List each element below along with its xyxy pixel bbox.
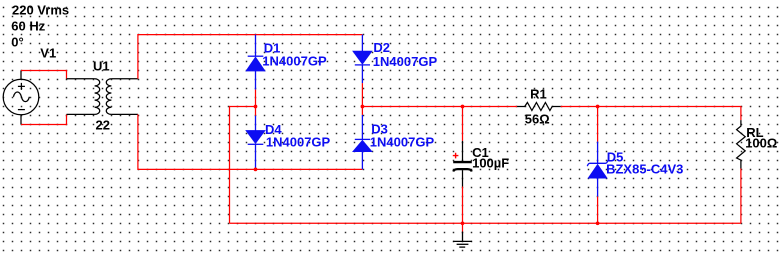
diode D1 bbox=[247, 35, 265, 90]
wire node B rail to D5 top bbox=[597, 107, 599, 142]
junction D4 bottom bbox=[254, 168, 258, 172]
ground symbol bbox=[453, 232, 472, 248]
ground rail bbox=[230, 222, 741, 224]
V1 plus sign bbox=[18, 83, 25, 90]
wire V1 top to U1 primary bbox=[21, 71, 67, 79]
svg-text:V1: V1 bbox=[40, 46, 56, 61]
diode D2 bbox=[353, 35, 371, 84]
V1 top pin bbox=[20, 71, 22, 80]
wire C1 bottom to ground rail bbox=[462, 187, 464, 224]
svg-text:60 Hz: 60 Hz bbox=[11, 18, 45, 33]
transformer U1 primary coil bbox=[67, 79, 100, 115]
ground stub wire bbox=[462, 223, 464, 231]
wire D2 cathode to node B bbox=[361, 83, 363, 106]
capacitor C1 bbox=[453, 141, 472, 187]
junction ground bbox=[461, 221, 465, 225]
wire RL bottom to ground rail bbox=[740, 169, 742, 224]
wire D5 anode to ground rail bbox=[597, 197, 599, 224]
diode D4 bbox=[247, 116, 265, 170]
svg-text:100Ω: 100Ω bbox=[745, 135, 777, 150]
wire V1 bottom to U1 primary bbox=[21, 114, 67, 124]
junction node B (D2/D3) bbox=[361, 105, 365, 109]
wire R1 right to RL top bbox=[561, 107, 741, 121]
C1 polarity plus bbox=[453, 153, 459, 159]
svg-text:U1: U1 bbox=[93, 59, 110, 74]
AC source V1 circle bbox=[3, 71, 39, 125]
V1 bottom pin bbox=[20, 115, 22, 125]
wire D1 anode to node A bbox=[255, 90, 257, 107]
junction D5 bottom bbox=[596, 221, 600, 225]
capacitor C1 top wire bbox=[462, 107, 464, 141]
junction C1 top bbox=[461, 105, 465, 109]
V1 minus sign bbox=[18, 109, 25, 111]
svg-text:56Ω: 56Ω bbox=[525, 111, 550, 126]
resistor R1 bbox=[517, 103, 561, 111]
svg-text:R1: R1 bbox=[530, 86, 547, 101]
svg-text:BZX85-C4V3: BZX85-C4V3 bbox=[606, 162, 683, 177]
wire node A to ground rail (left drop) bbox=[230, 107, 256, 224]
wire U1 secondary top to top rail bbox=[138, 35, 363, 79]
svg-text:D2: D2 bbox=[373, 40, 390, 55]
svg-text:220 Vrms: 220 Vrms bbox=[12, 2, 69, 17]
wire node A to D4 cathode bbox=[255, 107, 257, 116]
wire node B to D3 cathode bbox=[361, 107, 363, 115]
svg-text:1N4007GP: 1N4007GP bbox=[266, 135, 331, 150]
zener diode D5 bbox=[587, 142, 608, 197]
diode D3 bbox=[353, 115, 371, 169]
svg-text:22: 22 bbox=[96, 118, 110, 133]
wire node B to R1 left bbox=[362, 106, 517, 108]
svg-text:0°: 0° bbox=[11, 35, 23, 50]
junction D5 top bbox=[596, 105, 600, 109]
svg-text:1N4007GP: 1N4007GP bbox=[373, 54, 438, 69]
wire U1 secondary bottom to lower rail bbox=[138, 114, 363, 169]
svg-text:100µF: 100µF bbox=[472, 155, 509, 170]
svg-text:1N4007GP: 1N4007GP bbox=[262, 53, 327, 68]
resistor RL bbox=[737, 120, 746, 168]
transformer U1 secondary coil bbox=[106, 79, 138, 115]
junction node A (D1/D4) bbox=[254, 105, 258, 109]
svg-text:1N4007GP: 1N4007GP bbox=[370, 135, 435, 150]
V1 sine wave bbox=[13, 92, 29, 102]
